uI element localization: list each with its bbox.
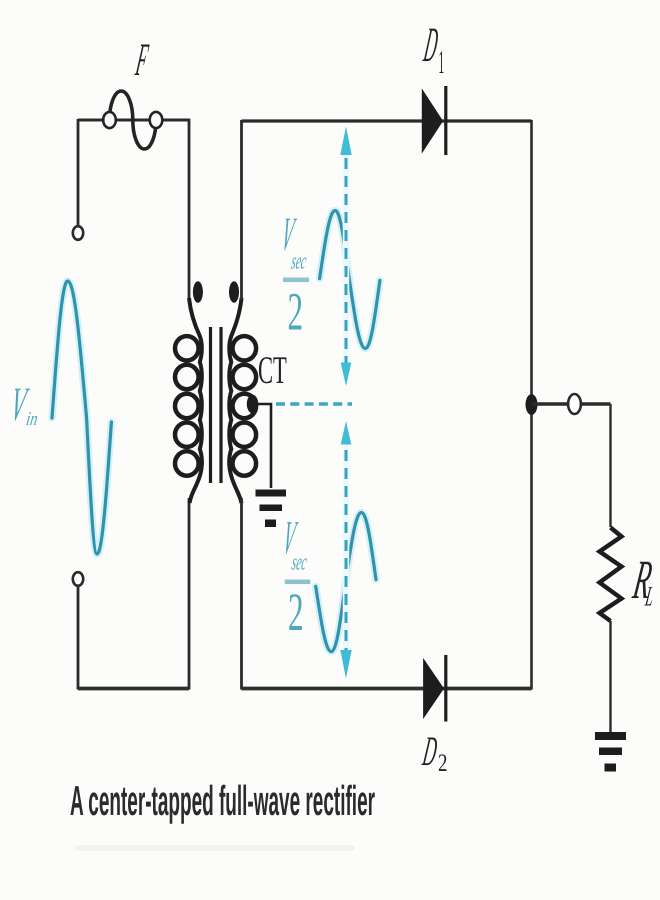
caption: A center-tapped full-wave rectifier [70,777,375,824]
caption faint echo [75,845,355,851]
label Vsec/2 lower [280,514,311,644]
label D1 [420,20,444,82]
CT reference dashed line [276,402,352,405]
waveform Vsec/2 lower (sine) [316,513,376,652]
transformer T secondary winding [229,298,256,503]
phase dot secondary [229,281,239,303]
svg-text:A center-tapped full-wave rect: A center-tapped full-wave rectifier [70,777,375,824]
source waveform Vin (sine) [52,281,111,554]
input terminal bottom [73,572,83,586]
wire output right vertical [530,120,533,690]
wire primary top [78,119,190,122]
wire load vertical upper [609,404,611,527]
svg-text:2: 2 [288,285,304,344]
phase dot primary [193,281,203,303]
output node junction [526,394,538,415]
label D2 [419,730,447,778]
wire primary left vertical upper [77,119,80,227]
label F [132,36,151,86]
wire secondary lead lower [240,498,243,690]
label Vin [7,380,39,432]
fuse F [103,91,162,149]
wire output horizontal [532,402,611,405]
svg-text:1: 1 [439,47,445,82]
dimension arrow lower (Vsec/2 span) [340,421,351,679]
transformer T primary winding [175,298,202,503]
ground (center tap) [256,490,287,528]
wire primary bottom [78,687,189,691]
label Vsec/2 upper [278,210,309,343]
dimension arrow upper (Vsec/2 span) [340,127,351,387]
output terminal circle [568,394,581,414]
wire primary right vertical upper [188,119,191,302]
wire primary left vertical lower [77,586,80,690]
wire load vertical lower [609,621,611,733]
label CT [258,350,287,392]
diode D1 [422,86,446,155]
ground (load) [595,732,626,772]
center tap node CT [247,395,271,488]
svg-text:2: 2 [288,585,304,644]
label RL [628,552,656,614]
input terminal top [73,226,83,240]
resistor RL [600,528,622,622]
wire secondary bottom [242,687,532,691]
diode D2 [424,655,446,722]
wire secondary top [242,119,532,122]
transformer core [211,327,222,483]
waveform Vsec/2 upper (sine) [320,211,380,349]
wire primary right vertical lower [188,498,191,690]
wire secondary lead upper [240,120,243,300]
svg-text:2: 2 [438,751,447,778]
svg-text:CT: CT [258,350,287,392]
